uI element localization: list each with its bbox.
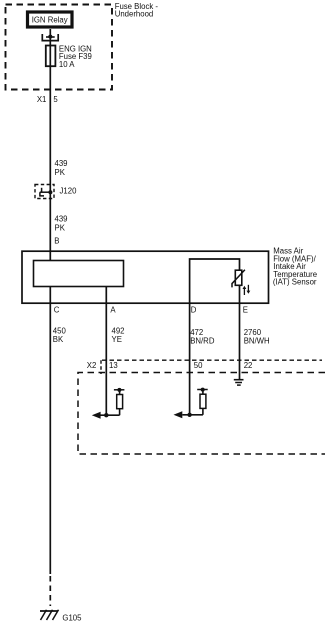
svg-text:PK: PK: [55, 168, 66, 177]
svg-text:50: 50: [194, 361, 203, 370]
branch A junction: [104, 413, 108, 417]
wire: J120 to MAF sensor pin B: [49, 192, 51, 261]
ECM dashed box (open right): [78, 373, 325, 455]
splice J120: [35, 185, 54, 199]
branch D terminal: [202, 408, 204, 414]
wire 450 BK: sensor pin C to G105: [49, 287, 51, 575]
MAF sensing element: [34, 261, 124, 287]
svg-text:439: 439: [55, 215, 68, 224]
svg-text:439: 439: [55, 159, 68, 168]
branch D wire to arrow: [182, 414, 203, 416]
svg-text:J120: J120: [60, 187, 78, 196]
svg-text:A: A: [110, 306, 116, 315]
wire: element to pin A: [105, 287, 107, 416]
svg-text:(IAT) Sensor: (IAT) Sensor: [273, 278, 317, 287]
svg-text:PK: PK: [55, 224, 66, 233]
terminal symbol below relay: [48, 35, 52, 39]
svg-text:13: 13: [109, 361, 118, 370]
svg-text:G105: G105: [62, 614, 82, 623]
ground at X2 pin 22: [234, 379, 244, 381]
svg-text:BN/WH: BN/WH: [244, 337, 270, 346]
wire: fuse to J120: [49, 66, 51, 192]
relay IGN Relay: [28, 12, 73, 27]
ground G105: [40, 610, 58, 612]
svg-text:22: 22: [244, 361, 253, 370]
fuse F39: [46, 46, 56, 67]
thermistor (IAT): [235, 270, 242, 285]
fuse block - underhood dashed box: [6, 5, 113, 90]
MAF/IAT sensor box: [22, 251, 269, 303]
svg-text:BK: BK: [53, 335, 64, 344]
svg-text:X2: X2: [87, 361, 97, 370]
IAT thermistor loop wires: [190, 259, 240, 303]
wire 472 BN/RD: pin D to X2-50: [189, 303, 191, 415]
svg-text:D: D: [191, 306, 197, 315]
branch A wire to arrow: [100, 414, 120, 416]
svg-text:B: B: [54, 237, 59, 246]
svg-text:E: E: [243, 306, 248, 315]
branch D junction: [187, 413, 191, 417]
svg-text:YE: YE: [112, 335, 122, 344]
svg-text:IGN Relay: IGN Relay: [32, 16, 68, 25]
branch D continuation arrow: [174, 411, 183, 418]
svg-text:BN/RD: BN/RD: [190, 337, 215, 346]
svg-text:10 A: 10 A: [59, 60, 75, 69]
connector X2 dashed line: [102, 359, 322, 361]
svg-text:X1: X1: [37, 95, 47, 104]
svg-text:5: 5: [53, 95, 58, 104]
branch A continuation arrow: [92, 412, 101, 419]
svg-text:C: C: [54, 306, 60, 315]
temperature arrows: [243, 288, 245, 295]
wire: relay output to fuse: [49, 29, 51, 46]
svg-text:Underhood: Underhood: [115, 10, 154, 19]
branch A terminal: [119, 409, 121, 416]
